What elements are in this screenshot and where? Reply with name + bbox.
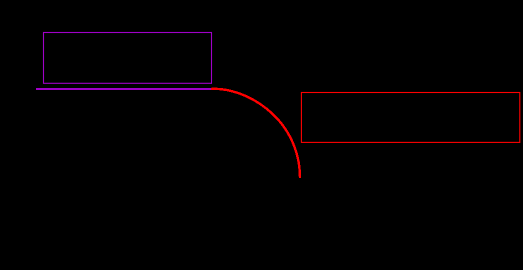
wire (purple baseline under box 1) <box>36 88 211 90</box>
box 1 (purple outline) <box>44 33 212 84</box>
wire (red arc connector) <box>211 89 300 178</box>
box 2 (red outline) <box>301 93 519 143</box>
